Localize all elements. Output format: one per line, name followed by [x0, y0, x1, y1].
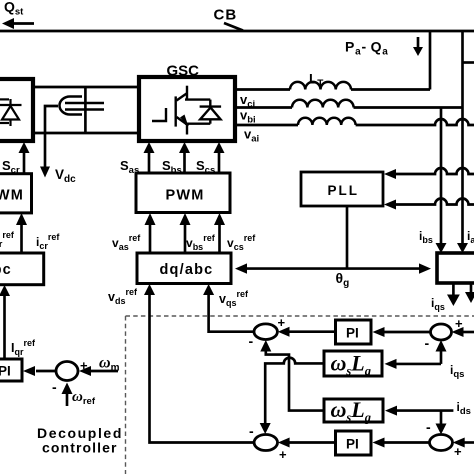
circuit breaker CB blade	[224, 23, 243, 31]
wire: v_ds ref feedback (sum2L output up into dq/abc)	[150, 294, 255, 443]
wire: PI1 output into sum1L	[289, 330, 335, 333]
wire: sum1R output into PI1	[384, 331, 431, 334]
wire: DC bus top rail	[33, 86, 139, 89]
svg-text:PWM: PWM	[166, 188, 205, 204]
svg-text:+: +	[279, 447, 287, 462]
wire: i_ds feedback down into sum2R	[440, 411, 443, 424]
wire: DC bus bottom rail	[33, 132, 139, 135]
svg-text:-: -	[249, 333, 254, 349]
block PLL	[301, 172, 383, 206]
summing junction sum1L	[254, 324, 277, 340]
svg-text:dq/abc: dq/abc	[0, 262, 12, 278]
summing junction speed	[56, 362, 78, 381]
block dq/abc stator side	[137, 253, 231, 284]
wire: theta_g distribution line	[246, 267, 420, 270]
wire: phase c output of GSC	[235, 88, 290, 91]
wire: omega_m input	[91, 370, 118, 373]
inductor L_T phase b	[292, 100, 354, 108]
wire: PI output up to rotor dq/abc	[3, 295, 6, 359]
block abc/dq measurement (cropped at right edge)	[437, 253, 474, 283]
wire: S_cr gate arrow	[23, 152, 26, 173]
arrow Pa-Qa power flow (down)	[417, 37, 420, 49]
summing junction sum1R	[431, 324, 452, 340]
transistor IGBT inside GSC	[152, 86, 210, 135]
svg-text:PLL: PLL	[328, 183, 360, 198]
wire: grid drop B (bus to abc/dq block)	[461, 31, 464, 246]
inductor L_T phase a	[298, 118, 356, 125]
block PWM left (cropped)	[0, 174, 32, 213]
svg-text:PI: PI	[346, 437, 359, 452]
wire: S_cs gate arrow	[218, 152, 221, 173]
wire: i_qs output stub	[452, 283, 455, 296]
wire: PI2 output into sum2L	[289, 441, 335, 444]
wire: current sense drop C (phase b to abc/dq block)	[440, 108, 443, 247]
wire: i_qs ref input from right edge	[463, 331, 474, 334]
svg-text:CB: CB	[214, 7, 238, 24]
converter GSC block	[139, 77, 235, 141]
wire: v_cs ref arrow into PWM	[218, 224, 221, 253]
svg-text:PI: PI	[0, 364, 11, 379]
wire: v_qs ref feedback (sum1L output up into dq/abc)	[209, 294, 254, 332]
wire: omega_ref input	[66, 393, 69, 406]
block PWM centre	[136, 173, 230, 213]
wire: i_ds ref input from right edge	[464, 441, 474, 444]
wire: PLL input va (hops)	[396, 168, 474, 174]
svg-text:controller: controller	[42, 440, 118, 456]
node Q_st flow arrow	[2, 18, 14, 29]
wire: S_as gate arrow	[148, 152, 151, 173]
wire: grid drop A (bus to phase c)	[429, 31, 432, 90]
wire: i_ds output stub (cropped)	[470, 283, 473, 294]
svg-text:+: +	[454, 444, 462, 459]
svg-text:+: +	[278, 315, 286, 330]
svg-text:PWM: PWM	[0, 188, 24, 204]
wire: Vdc sense tap	[45, 106, 58, 167]
wire: speed error to PI	[36, 370, 56, 373]
wire: omega_s L_g q output, hops over cross wire, down into sum2L	[265, 358, 324, 424]
converter RSC (cropped at left edge)	[0, 79, 33, 141]
svg-text:-: -	[425, 335, 430, 351]
block PI d-axis	[336, 431, 372, 455]
block PI q-axis	[336, 320, 372, 344]
svg-text:-: -	[249, 423, 254, 439]
wire: v_bs ref arrow into PWM	[184, 224, 187, 253]
svg-text:-: -	[52, 379, 57, 395]
svg-text:+: +	[80, 358, 88, 373]
svg-text:-: -	[426, 419, 431, 435]
inductor L_T phase c	[290, 82, 351, 90]
wire: main grid bus (top horizontal)	[0, 30, 474, 33]
wire: phase b output of GSC	[235, 106, 292, 109]
svg-text:PI: PI	[346, 326, 359, 341]
wire: stub to grid right edge	[463, 61, 474, 64]
dashed boundary decoupled controller	[126, 316, 474, 474]
summing junction sum2L	[254, 435, 277, 451]
wire: omega_s L_g d output, left then up into sum1L	[266, 351, 324, 411]
wire: v_as ref arrow into PWM	[149, 224, 152, 253]
block omega_s L_g (q)	[324, 351, 382, 376]
diode D-rsc inside RSC	[0, 104, 22, 106]
svg-text:dq/abc: dq/abc	[160, 262, 214, 278]
wire: S_bs gate arrow	[183, 152, 186, 173]
diode D-gsc inside GSC	[200, 100, 222, 124]
wire: phase a output of GSC (hops over i-sense verticals)	[235, 124, 298, 127]
block omega_s L_g (d)	[324, 399, 383, 422]
capacitor C-dc (DC link)	[60, 97, 82, 115]
block dq/abc rotor side (cropped)	[0, 253, 44, 285]
wire: DC link vertical	[84, 87, 87, 133]
wire: v_cr ref arrow into left PWM	[20, 224, 23, 253]
svg-text:GSC: GSC	[167, 63, 200, 80]
block PI rotor speed (cropped)	[0, 359, 22, 381]
summing junction sum2R	[430, 435, 453, 451]
wire: sum2R output into PI2	[384, 441, 430, 444]
wire: i_qs feedback up into sum1R	[440, 351, 443, 364]
wire: PLL output (theta_g)	[346, 206, 349, 269]
wire: i_qs into omega_s L_g q-block	[396, 363, 441, 366]
wire: i_ds input line	[396, 409, 453, 412]
wire: PLL input vb (hops)	[396, 199, 474, 205]
